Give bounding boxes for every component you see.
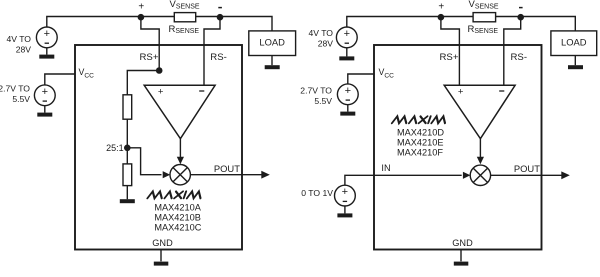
node: junction dot RS- side on rail <box>217 14 224 21</box>
wire: GND pin to ground <box>160 250 162 262</box>
svg-text:RS+: RS+ <box>140 52 159 63</box>
svg-text:+: + <box>458 86 464 97</box>
voltage source V5 0 TO 1V <box>335 185 356 206</box>
wire: divider tap to multiplier <box>127 148 161 175</box>
svg-text:GND: GND <box>152 238 173 248</box>
wire: POUT output (right) <box>491 174 562 176</box>
arrowhead POUT (right) <box>561 171 570 179</box>
svg-text:2.7V TO: 2.7V TO <box>0 84 30 94</box>
wire: V2 to ground <box>44 106 46 113</box>
svg-text:+: + <box>138 1 144 12</box>
svg-text:+: + <box>44 28 50 40</box>
svg-text:RSENSE: RSENSE <box>169 24 200 35</box>
ground symbol under V3 <box>339 56 354 60</box>
svg-text:RS-: RS- <box>210 52 227 63</box>
arrowhead into multiplier top (right) <box>477 157 484 165</box>
ground symbol under LOAD (right) <box>568 65 583 69</box>
wire: V2 to VCC pin <box>45 74 75 85</box>
multiplier (gain block, right) <box>470 165 490 185</box>
wire: RS- tap from rail into box <box>204 17 220 85</box>
wire: POUT output <box>190 174 261 176</box>
svg-text:MAX4210F: MAX4210F <box>397 147 443 157</box>
wire: V1 to ground <box>46 48 48 55</box>
svg-text:RS+: RS+ <box>440 52 459 63</box>
svg-text:GND: GND <box>452 238 473 248</box>
wire: junction to divider top <box>127 71 159 95</box>
svg-text:+: + <box>342 186 348 198</box>
wire: V5 to ground <box>344 206 346 213</box>
svg-text:POUT: POUT <box>214 163 240 174</box>
ground symbol inside box (divider) <box>120 199 135 203</box>
node: junction dot RS+ side on rail (right) <box>438 14 445 21</box>
ground symbol under box (left) <box>154 262 169 266</box>
ground symbol under V2 <box>37 113 52 117</box>
svg-text:+: + <box>438 1 444 12</box>
svg-text:25:1: 25:1 <box>106 143 124 153</box>
svg-text:VCC: VCC <box>79 67 95 79</box>
svg-text:VSENSE: VSENSE <box>170 0 200 10</box>
voltage source V4 2.7V-5.5V <box>337 84 358 105</box>
ground symbol under box (right) <box>454 262 469 266</box>
svg-text:LOAD: LOAD <box>561 37 587 48</box>
svg-text:5.5V: 5.5V <box>314 96 332 106</box>
voltage source V1 4V-28V <box>36 27 57 48</box>
svg-text:MAX4210D: MAX4210D <box>397 127 444 137</box>
node: divider tap 25:1 <box>124 145 131 152</box>
svg-text:MAX4210E: MAX4210E <box>397 137 443 147</box>
arrowhead into multiplier left (right) <box>463 172 471 179</box>
IC body U2 MAX4210D/E/F <box>374 45 542 250</box>
wire: V4 to VCC pin (right) <box>348 74 374 84</box>
svg-text:POUT: POUT <box>514 163 540 174</box>
wire: RS+ tap from rail into box (right) <box>441 17 460 85</box>
resistor R2 (divider bottom) <box>123 164 132 186</box>
arrowhead into multiplier left <box>163 171 171 178</box>
voltage source V3 4V-28V <box>336 27 357 48</box>
multiplier (gain block) <box>170 165 190 185</box>
IC body U1 MAX4210A/B/C <box>75 45 242 250</box>
svg-text:2.7V TO: 2.7V TO <box>300 86 332 96</box>
svg-text:VSENSE: VSENSE <box>469 0 499 10</box>
svg-text:RSENSE: RSENSE <box>468 24 499 35</box>
svg-text:4V TO: 4V TO <box>308 28 333 38</box>
wire: GND pin to ground (right) <box>460 250 462 262</box>
svg-text:LOAD: LOAD <box>259 37 285 48</box>
wire: top supply rail from V1 to load drop <box>47 17 272 31</box>
wire: V3 to ground <box>346 48 348 57</box>
wire: V4 to ground (right) <box>347 105 349 112</box>
resistor R1 (divider top) <box>123 95 132 119</box>
svg-text:VCC: VCC <box>379 67 395 79</box>
node: junction dot RS+ side on rail <box>138 14 145 21</box>
wire: R2 to ground <box>126 186 128 200</box>
svg-text:5.5V: 5.5V <box>12 94 30 104</box>
wire: IN to multiplier <box>345 175 462 185</box>
svg-text:MAX4210A: MAX4210A <box>154 202 201 212</box>
svg-text:4V TO: 4V TO <box>6 34 31 44</box>
svg-text:+: + <box>345 85 351 97</box>
svg-text:IN: IN <box>381 163 390 173</box>
svg-text:28V: 28V <box>318 39 334 49</box>
wire: RS- tap from rail into box (right) <box>504 17 521 85</box>
svg-text:0 TO 1V: 0 TO 1V <box>301 188 333 198</box>
svg-text:+: + <box>158 86 164 97</box>
node: junction dot at RS+ / divider <box>156 67 163 74</box>
MAXIM logo (left) <box>147 191 202 198</box>
wire: top supply rail from V3 to load drop <box>347 17 576 31</box>
svg-text:+: + <box>42 86 48 98</box>
MAXIM logo (right) <box>392 116 447 123</box>
op-amp U2a <box>444 85 515 138</box>
svg-text:+: + <box>344 28 350 40</box>
svg-text:MAX4210C: MAX4210C <box>154 222 201 232</box>
svg-text:MAX4210B: MAX4210B <box>154 212 200 222</box>
wire: op-amp output to multiplier (right) <box>479 139 481 159</box>
ground symbol under V4 <box>340 112 355 116</box>
svg-text:28V: 28V <box>16 45 32 55</box>
wire: R1 to tap node <box>126 119 128 164</box>
wire: load to ground (right) <box>574 56 576 66</box>
wire: RS+ tap from rail into box <box>141 17 159 70</box>
load box LOAD (left) <box>249 31 296 56</box>
resistor RSENSE <box>174 13 195 22</box>
resistor RSENSE (right) <box>473 13 496 22</box>
op-amp U1a <box>144 85 215 138</box>
ground symbol under V1 <box>39 55 54 59</box>
label: - terminal of sense resistor <box>218 7 222 9</box>
arrowhead into multiplier top <box>177 157 184 165</box>
wire: op-amp output to multiplier <box>179 139 181 159</box>
load box LOAD (right) <box>551 31 597 56</box>
node: junction dot RS- side on rail (right) <box>517 14 524 21</box>
label: - terminal of sense resistor (right) <box>519 7 523 9</box>
svg-text:RS-: RS- <box>511 52 528 63</box>
arrowhead POUT <box>261 171 270 179</box>
ground symbol under LOAD (left) <box>265 65 280 69</box>
wire: load to ground <box>271 56 273 66</box>
ground symbol under V5 <box>337 213 352 217</box>
voltage source V2 2.7V-5.5V <box>34 85 55 106</box>
